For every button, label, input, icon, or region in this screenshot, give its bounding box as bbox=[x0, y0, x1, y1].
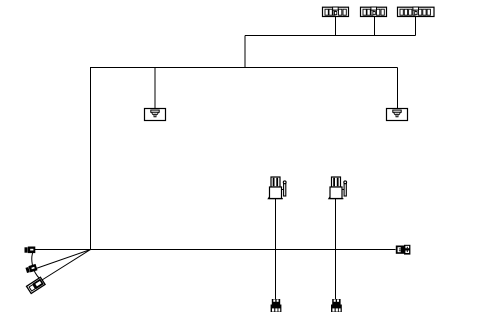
wire: vertical from plug P5 to connector B2 bbox=[335, 199, 337, 300]
plug P4 (mid 2-pin plug) bbox=[268, 177, 286, 199]
connector P3 (left bottom rotated plug) bbox=[26, 277, 45, 293]
wire: bundle arc across fan branches bbox=[32, 253, 40, 280]
plug P5 (mid 2-pin plug) bbox=[329, 177, 347, 199]
connector B1 (bottom small black) bbox=[271, 299, 282, 312]
wire: fan branch to connector P2 bbox=[36, 250, 91, 269]
wire: drop to ground lug G1 bbox=[154, 68, 156, 112]
wire: drop from connector J2 to top bus bbox=[374, 17, 376, 36]
connector J8 (right small black) bbox=[396, 245, 411, 255]
connector B2 (bottom small black) bbox=[331, 299, 342, 312]
wire: main horizontal bus bbox=[90, 67, 398, 69]
connector J1 (top multi-pin) bbox=[323, 7, 349, 17]
wire: drop from connector J3 to top bus bbox=[415, 17, 417, 36]
wire: drop to ground lug G2 bbox=[397, 68, 399, 112]
connector J3 (top multi-pin, wide) bbox=[398, 7, 435, 17]
ground lug G2 (eyelet in box) bbox=[387, 109, 408, 121]
connector P2 (left middle small black) bbox=[25, 264, 37, 273]
ground lug G1 (eyelet in box) bbox=[145, 109, 166, 121]
wire: fan branch to connector P1 bbox=[35, 249, 91, 251]
wire: left trunk vertical bbox=[90, 68, 92, 251]
wire: vertical link top bus to main bus bbox=[244, 36, 246, 68]
connector P1 (left top small black) bbox=[25, 247, 36, 254]
connector J2 (top multi-pin) bbox=[361, 7, 387, 17]
wire: top horizontal bus bbox=[245, 35, 416, 37]
wire: junction horizontal to connector J8 bbox=[91, 249, 396, 251]
wire: drop from connector J1 to top bus bbox=[335, 17, 337, 36]
wire: fan branch to connector P3 bbox=[42, 250, 91, 281]
wire: vertical from plug P4 to connector B1 bbox=[275, 199, 277, 300]
